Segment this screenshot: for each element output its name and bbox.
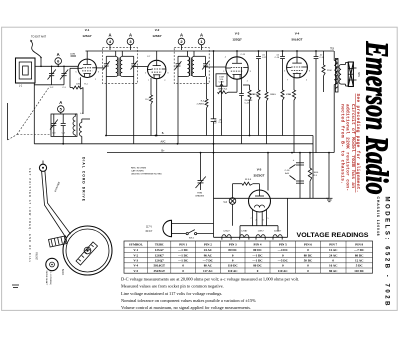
- wire: right vertical rail: [312, 136, 314, 199]
- svg-text:Nominal tolerance on component: Nominal tolerance on component values ma…: [121, 298, 256, 303]
- svg-text:CHASSIS: CHASSIS: [195, 194, 205, 197]
- chassis ground: [326, 152, 333, 202]
- tuning capacitor C-1: [60, 66, 68, 89]
- svg-text:—1 DC: —1 DC: [251, 259, 263, 263]
- cord tension block: [49, 236, 68, 247]
- svg-text:10M: 10M: [76, 84, 80, 86]
- dashed gang coupling lines: [17, 87, 50, 135]
- svg-text:Emerson Radio: Emerson Radio: [360, 41, 396, 195]
- svg-text:A: A: [108, 32, 111, 37]
- svg-text:3: 3: [263, 220, 264, 222]
- IF transformer T-1: [103, 48, 138, 84]
- svg-text:—1 DC: —1 DC: [177, 253, 189, 257]
- svg-text:24 AC: 24 AC: [204, 248, 213, 252]
- svg-text:2: 2: [256, 220, 257, 222]
- svg-text:V-2: V-2: [155, 28, 160, 32]
- svg-text:12SA7: 12SA7: [155, 248, 164, 252]
- svg-text:Circuit of Model 702B has an: Circuit of Model 702B has an: [350, 104, 356, 188]
- svg-text:5: 5: [223, 71, 224, 73]
- svg-text:50L6GT: 50L6GT: [153, 264, 165, 268]
- terminal marks: [12, 284, 19, 286]
- alignment point A-4: [107, 32, 114, 45]
- heater 12SK7: [256, 230, 265, 239]
- svg-text:A: A: [200, 32, 203, 37]
- svg-text:A: A: [57, 52, 60, 57]
- svg-text:DIAL CORD DRIVE: DIAL CORD DRIVE: [82, 157, 86, 202]
- svg-text:50 DC: 50 DC: [304, 259, 313, 263]
- resistor R-5: [243, 85, 258, 136]
- svg-text:5: 5: [145, 73, 146, 75]
- junction dots: [155, 135, 157, 137]
- svg-text:CHASSIS 120048: CHASSIS 120048: [376, 197, 380, 236]
- wire: center vertical rail: [213, 51, 215, 119]
- svg-text:3MEG R-4: 3MEG R-4: [218, 89, 228, 91]
- svg-text:PIN 4: PIN 4: [254, 243, 262, 247]
- tube V-3 12SQ7: [226, 32, 248, 80]
- wire: V-1 plate to IF1: [96, 67, 104, 69]
- svg-text:SPK: SPK: [357, 72, 360, 77]
- svg-text:PIN 6: PIN 6: [304, 243, 312, 247]
- svg-text:—7 DC: —7 DC: [353, 248, 365, 252]
- svg-text:80 AC: 80 AC: [204, 264, 213, 268]
- speaker SPK: [339, 62, 360, 87]
- svg-text:96 AC: 96 AC: [204, 253, 213, 257]
- svg-text:1MEG: 1MEG: [270, 94, 276, 96]
- wire: IF1 drops: [105, 76, 107, 136]
- svg-text:PIN 1: PIN 1: [179, 243, 187, 247]
- svg-text:3: 3: [167, 73, 168, 75]
- heater string: [214, 236, 288, 238]
- alignment point A-5: [58, 100, 65, 112]
- svg-text:117 AC: 117 AC: [203, 269, 214, 273]
- svg-text:A: A: [59, 100, 62, 105]
- svg-text:80 DC: 80 DC: [253, 264, 262, 268]
- svg-text:(1-1/2 TURNS): (1-1/2 TURNS): [49, 271, 51, 285]
- tube V-5 35Z5GT rectifier: [249, 168, 271, 222]
- svg-text:5: 5: [268, 218, 269, 220]
- wire: top B+ plate bus: [86, 50, 335, 52]
- trimmer capacitor C-3: [50, 114, 58, 136]
- svg-text:12SQ7: 12SQ7: [223, 230, 230, 232]
- svg-text:80 DC: 80 DC: [355, 253, 364, 257]
- svg-text:Line voltage maintained at 117: Line voltage maintained at 117 volts for…: [121, 291, 222, 296]
- pointer pulley: [39, 161, 46, 172]
- svg-text:V-3: V-3: [133, 259, 138, 263]
- resistor R-3: [197, 77, 208, 136]
- pilot lamp V-6: [223, 184, 235, 226]
- wire: osc box bottom to AVC bus: [62, 136, 64, 143]
- resistor R-11 tone: [323, 51, 325, 65]
- trimmer capacitor C-2: [48, 66, 56, 89]
- alignment point A-6: [55, 52, 62, 65]
- svg-text:110 AC: 110 AC: [278, 269, 289, 273]
- svg-text:110 DC: 110 DC: [354, 269, 365, 273]
- svg-text:A: A: [180, 32, 183, 37]
- alignment point A-3: [127, 32, 134, 45]
- svg-text:RES. IN OHMS: RES. IN OHMS: [131, 168, 147, 170]
- svg-text:—1 DC: —1 DC: [251, 253, 263, 257]
- svg-text:50L6GT: 50L6GT: [291, 38, 302, 42]
- svg-text:—1 DC: —1 DC: [177, 248, 189, 252]
- svg-text:80 DC: 80 DC: [304, 253, 313, 257]
- svg-text:BACK: BACK: [61, 269, 64, 276]
- alignment point A-2: [178, 32, 185, 45]
- wire: loop bottom drop: [33, 83, 35, 144]
- svg-text:B+: B+: [161, 149, 165, 152]
- svg-text:PIN 3: PIN 3: [229, 243, 237, 247]
- svg-text:470K: 470K: [250, 94, 255, 96]
- svg-text:V-2: V-2: [133, 253, 138, 257]
- svg-text:—4 DC: —4 DC: [277, 248, 289, 252]
- wire: IF2 drops: [177, 76, 179, 144]
- volume control R-3: [216, 74, 227, 136]
- dial cord lines: [42, 171, 67, 238]
- capacitor C-4: [61, 114, 66, 136]
- wire: heater right return: [287, 198, 289, 237]
- svg-text:5 DC: 5 DC: [356, 264, 364, 268]
- resistor R-1: [70, 68, 88, 114]
- svg-text:Measured values are from socke: Measured values are from socket pin to c…: [121, 284, 224, 289]
- svg-text:7: 7: [79, 79, 80, 81]
- svg-text:SW-1: SW-1: [189, 238, 195, 240]
- svg-text:V-5: V-5: [257, 168, 262, 172]
- svg-text:60 CY: 60 CY: [146, 230, 153, 233]
- svg-text:CAP. IN MFD: CAP. IN MFD: [131, 170, 144, 173]
- tube V-2 12SK7: [148, 28, 166, 79]
- svg-text:DRIVE SHAFT: DRIVE SHAFT: [45, 271, 48, 286]
- svg-text:3: 3: [309, 71, 310, 73]
- svg-text:80 AC: 80 AC: [329, 269, 338, 273]
- svg-text:12SK7: 12SK7: [152, 34, 162, 38]
- svg-text:MODELS: 652B - 702B: MODELS: 652B - 702B: [384, 197, 390, 307]
- svg-text:V-4: V-4: [295, 32, 300, 36]
- trimmer capacitor C-17: [195, 152, 206, 198]
- svg-text:12SK7: 12SK7: [258, 230, 265, 232]
- svg-text:AVC: AVC: [161, 141, 166, 144]
- svg-text:2: 2: [247, 81, 248, 83]
- svg-text:PIN 5: PIN 5: [279, 243, 287, 247]
- svg-text:12SK7: 12SK7: [155, 253, 164, 257]
- svg-text:12SA7: 12SA7: [241, 229, 248, 232]
- svg-text:33 R-8: 33 R-8: [245, 179, 252, 181]
- capacitor C-16: [282, 51, 284, 57]
- svg-text:117 V: 117 V: [146, 226, 152, 229]
- svg-text:B-: B-: [162, 132, 165, 135]
- svg-text:A: A: [129, 32, 132, 37]
- resistor R-9: [308, 153, 319, 199]
- svg-text:220K: 220K: [327, 70, 332, 72]
- voltage readings table: [124, 241, 373, 273]
- svg-text:110 DC: 110 DC: [228, 264, 239, 268]
- svg-text:PIN 7: PIN 7: [329, 243, 337, 247]
- svg-text:—7 DC: —7 DC: [202, 259, 214, 263]
- svg-text:TUBE: TUBE: [155, 243, 164, 247]
- svg-text:100M: 100M: [70, 54, 75, 56]
- svg-text:V-3: V-3: [235, 32, 240, 36]
- svg-text:12SQ7: 12SQ7: [155, 259, 164, 263]
- power plug: [146, 220, 214, 236]
- svg-text:80 DC: 80 DC: [253, 248, 262, 252]
- output transformer T-2: [330, 48, 338, 153]
- capacitor C-15: [258, 51, 260, 57]
- resistor R-8: [233, 179, 260, 190]
- svg-text:50L6GT: 50L6GT: [274, 230, 282, 232]
- svg-text:V-5: V-5: [133, 269, 138, 273]
- svg-text:C-18: C-18: [285, 170, 291, 172]
- resistor R-6: [257, 90, 260, 100]
- heater 50L6GT: [273, 230, 282, 239]
- svg-text:35Z5GT: 35Z5GT: [153, 269, 165, 273]
- svg-text:V-4: V-4: [133, 264, 138, 268]
- svg-text:2: 2: [306, 79, 307, 81]
- svg-text:12SQ7: 12SQ7: [232, 38, 242, 42]
- svg-text:5: 5: [284, 71, 285, 73]
- capacitor C-12: [239, 67, 253, 144]
- svg-text:3: 3: [98, 71, 99, 73]
- svg-text:A-B: A-B: [285, 172, 289, 175]
- oscillator box wires: [51, 114, 77, 136]
- resistor R-2: [150, 95, 153, 104]
- svg-text:V-1: V-1: [85, 28, 90, 32]
- svg-text:2: 2: [95, 79, 96, 81]
- svg-text:12 AC: 12 AC: [355, 259, 364, 263]
- svg-text:V-1: V-1: [133, 248, 138, 252]
- svg-text:7: 7: [148, 80, 149, 82]
- resistor R-12: [266, 51, 268, 92]
- svg-text:12 AC: 12 AC: [329, 248, 338, 252]
- svg-text:VOLTAGE READINGS: VOLTAGE READINGS: [297, 232, 370, 239]
- svg-text:12SA7: 12SA7: [82, 34, 92, 38]
- wire: B+ lower bus: [107, 152, 334, 154]
- IF transformer T-2IF: [174, 48, 209, 84]
- resistor R-13 cathode: [293, 78, 295, 90]
- tube V-1 12SA7: [70, 28, 96, 78]
- capacitor C-19: [315, 51, 317, 57]
- oscillator coil L-2: [73, 113, 90, 144]
- svg-text:24 AC: 24 AC: [329, 253, 338, 257]
- capacitor C-8 on rail: [211, 118, 217, 120]
- wire: AVC bus: [34, 143, 313, 145]
- svg-text:35Z5GT: 35Z5GT: [253, 174, 264, 178]
- svg-text:7: 7: [251, 218, 252, 220]
- dial drum: [63, 226, 112, 275]
- svg-text:7: 7: [287, 79, 288, 81]
- svg-text:UNLESS OTHERWISE NOTED: UNLESS OTHERWISE NOTED: [131, 174, 162, 176]
- svg-text:—5 DC: —5 DC: [277, 259, 289, 263]
- switch SW-1: [186, 230, 213, 240]
- svg-text:16 AC: 16 AC: [329, 264, 338, 268]
- wire: antenna to grid line: [41, 65, 78, 67]
- wire: left edge vertical: [7, 103, 9, 140]
- svg-text:80 DC: 80 DC: [228, 248, 237, 252]
- svg-text:SYMBOL: SYMBOL: [129, 243, 143, 247]
- svg-text:nected from B- to chassis.: nected from B- to chassis.: [339, 104, 345, 184]
- svg-text:2.2MEG: 2.2MEG: [197, 103, 205, 105]
- heater 12SQ7: [222, 230, 231, 239]
- heater 12SA7: [240, 229, 249, 239]
- tube V-4 50L6GT: [287, 32, 308, 78]
- svg-text:110 AC: 110 AC: [228, 269, 239, 273]
- wire: V-2 cathode drop: [156, 79, 158, 136]
- svg-text:TO EXT ANT: TO EXT ANT: [31, 35, 46, 39]
- svg-text:5: 5: [76, 71, 77, 73]
- svg-text:TRIM: TRIM: [197, 193, 202, 195]
- svg-text:T-2: T-2: [330, 48, 334, 51]
- svg-text:3: 3: [250, 71, 251, 73]
- svg-text:2: 2: [164, 80, 165, 82]
- svg-text:—1 DC: —1 DC: [177, 259, 189, 263]
- wire: V-5 pin connections: [240, 225, 278, 227]
- drive shaft pulley: [46, 258, 58, 270]
- electrolytic C-18 A-B: [285, 153, 304, 199]
- svg-text:additional 220K resistor con-: additional 220K resistor con-: [345, 104, 351, 191]
- resistor R-7: [281, 90, 284, 100]
- svg-text:PIN 8: PIN 8: [355, 243, 363, 247]
- wire: B- bus: [106, 135, 313, 137]
- svg-text:7: 7: [226, 81, 227, 83]
- resistor R-4: [218, 79, 238, 93]
- grid capacitor C-5: [71, 55, 77, 57]
- wire: bottom return line: [214, 197, 330, 199]
- loop antenna L-1: [16, 58, 42, 88]
- svg-text:PIN 2: PIN 2: [204, 243, 212, 247]
- alignment point A-1: [198, 32, 205, 45]
- drum hub spring bar: [76, 242, 98, 265]
- notes under table: [121, 276, 299, 311]
- svg-text:FRONT: FRONT: [35, 252, 37, 261]
